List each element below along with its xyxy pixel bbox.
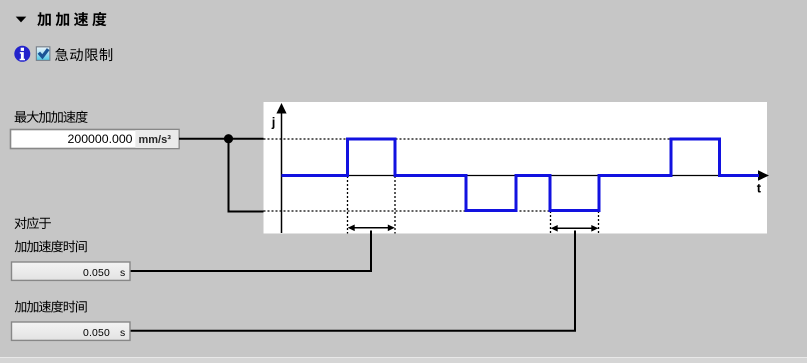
label 对应于 [15,217,51,229]
junction node [224,134,233,143]
j axis line [281,108,283,233]
svg-text:j: j [271,114,276,129]
wire graph to field2 [130,231,371,272]
section title 加加速度 [37,12,106,26]
svg-text:s: s [120,268,125,279]
wire graph to field3 [130,231,575,331]
label 加加速度时间 (2) [15,301,87,313]
section collapse triangle [16,17,27,23]
label 最大加加速度 [15,111,88,123]
checkbox 急动限制 [36,46,51,61]
field jerk time 1 [12,262,131,280]
dotted guide pulse1 left [347,176,349,234]
svg-text:s: s [120,328,125,339]
time arrow pulse3 [551,225,599,232]
info icon [14,46,30,62]
wire junction down [229,139,264,212]
input field max jerk [11,130,180,149]
unit box mm/s3 [135,130,178,148]
bottom dotted level line [264,210,600,212]
dotted guide pulse3 right [598,211,600,234]
svg-text:t: t [757,180,762,195]
svg-text:200000.000: 200000.000 [68,132,133,146]
checkbox label 急动限制 [55,48,112,61]
dotted guide pulse3 left [550,211,552,234]
j axis arrowhead [276,103,286,114]
svg-text:0.050: 0.050 [83,328,110,339]
time arrow pulse1 [348,225,395,232]
top dotted level line [264,138,672,140]
dotted guide pulse1 right [394,176,396,234]
label 加加速度时间 (1) [15,240,87,252]
t axis line [282,175,758,177]
t axis arrowhead [758,170,769,180]
wire field1 to graph [179,138,264,140]
jerk waveform [282,139,760,211]
graph area [264,102,768,234]
bottom lighter strip [0,358,807,363]
field jerk time 2 [12,322,131,340]
svg-text:mm/s³: mm/s³ [139,134,172,146]
svg-text:0.050: 0.050 [83,268,110,279]
